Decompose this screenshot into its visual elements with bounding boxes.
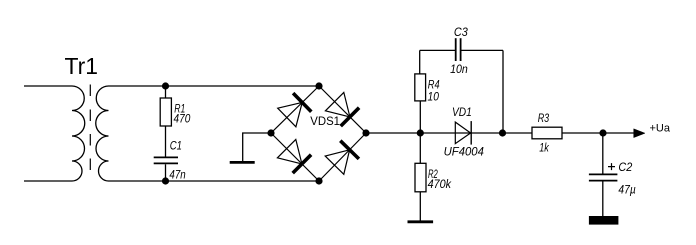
svg-text:47µ: 47µ (618, 182, 635, 196)
wire C3 left vertical (419, 50, 421, 74)
node R4/R2 (417, 129, 424, 136)
diode D-bottomright (325, 150, 349, 175)
wire C2 top (602, 133, 604, 174)
svg-text:VD1: VD1 (452, 105, 472, 119)
svg-text:UF4004: UF4004 (444, 144, 484, 158)
transformer secondary winding (96, 86, 109, 181)
wire primary bottom lead (24, 180, 72, 182)
wire R2 top (419, 133, 421, 163)
svg-text:R3: R3 (538, 111, 550, 125)
transformer Tr1 (24, 53, 109, 181)
svg-text:10n: 10n (450, 62, 468, 76)
wire C3 right vertical (502, 50, 504, 133)
transformer primary winding (72, 86, 85, 181)
bridge rectifier VDS1 (271, 86, 366, 181)
svg-text:C2: C2 (618, 160, 632, 174)
edge top-right (319, 86, 366, 133)
diode D-bottomleft (277, 139, 302, 164)
svg-text:C3: C3 (454, 25, 468, 39)
wire secondary bottom (109, 180, 320, 182)
ground G3 (589, 216, 619, 225)
node bridge top (315, 82, 322, 89)
arrow output (634, 129, 645, 138)
node bridge bottom (315, 177, 322, 184)
edge bottom-right (319, 133, 366, 181)
wire R2 bottom (419, 192, 421, 221)
node C3 right (499, 129, 506, 136)
svg-text:10: 10 (428, 90, 440, 104)
edge bottom-left (271, 133, 319, 181)
wire C2 bottom (602, 182, 604, 217)
node C1 bottom (162, 177, 169, 184)
svg-text:Tr1: Tr1 (65, 53, 99, 79)
diode D-topleft (278, 102, 303, 126)
diode D-topright (325, 92, 350, 117)
resistor R2 (415, 163, 426, 192)
ground G2 (408, 220, 434, 223)
wire R1 branch top (165, 86, 167, 98)
wire C1 bottom (165, 164, 167, 181)
capacitor C2 (589, 173, 618, 175)
wire main output line (366, 132, 532, 134)
wire secondary top (109, 85, 320, 87)
node bridge right (362, 129, 369, 136)
svg-text:VDS1: VDS1 (310, 116, 340, 128)
wire R4 bottom (419, 101, 421, 133)
svg-text:1k: 1k (539, 141, 549, 155)
node R1 top (162, 82, 169, 89)
wire primary top lead (24, 85, 72, 87)
wire R3 to arrow (562, 132, 634, 134)
node C2 top (599, 129, 606, 136)
svg-text:470: 470 (174, 112, 191, 126)
diode VD1 (455, 122, 470, 144)
capacitor C2 plus (608, 163, 615, 170)
wire bridge left to ground (243, 133, 271, 162)
wire R1 to C1 (165, 126, 167, 157)
transformer core (89, 85, 91, 171)
svg-text:47n: 47n (169, 167, 185, 181)
ground G1 (230, 161, 255, 164)
svg-text:+Ua: +Ua (650, 123, 671, 135)
node bridge left (267, 129, 274, 136)
capacitor C3 (420, 49, 456, 51)
edge top-left (271, 86, 319, 133)
resistor R4 (415, 74, 426, 101)
resistor R1 (160, 98, 171, 126)
svg-text:C1: C1 (170, 138, 182, 152)
resistor R3 (532, 127, 562, 139)
svg-text:470k: 470k (428, 177, 452, 191)
capacitor C1 (154, 156, 178, 158)
